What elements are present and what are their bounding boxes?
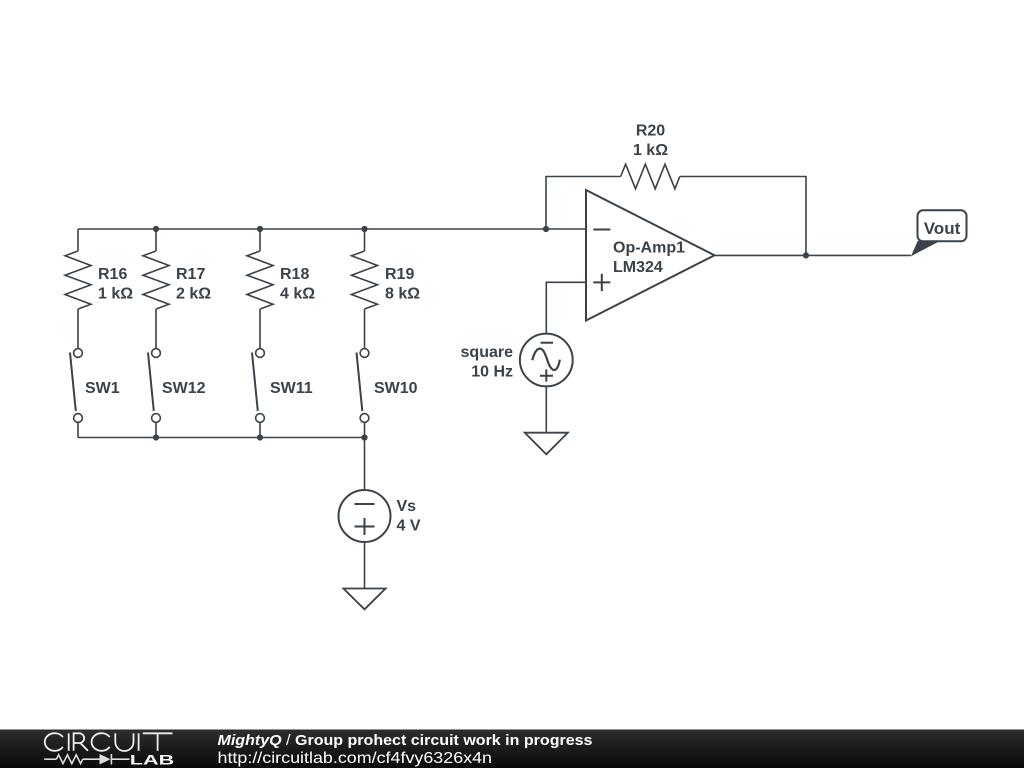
svg-text:http://circuitlab.com/cf4fvy63: http://circuitlab.com/cf4fvy6326x4n	[218, 750, 493, 767]
svg-text:1 kΩ: 1 kΩ	[98, 286, 133, 303]
svg-text:SW12: SW12	[162, 380, 206, 397]
svg-text:LAB: LAB	[130, 751, 175, 767]
svg-text:10 Hz: 10 Hz	[471, 364, 513, 381]
svg-text:1 kΩ: 1 kΩ	[633, 142, 668, 159]
svg-text:square: square	[461, 344, 514, 361]
svg-text:SW10: SW10	[374, 380, 418, 397]
svg-text:R16: R16	[98, 266, 127, 283]
svg-text:SW11: SW11	[270, 380, 313, 397]
svg-text:8 kΩ: 8 kΩ	[385, 286, 420, 303]
svg-text:R20: R20	[636, 123, 665, 140]
svg-text:R18: R18	[280, 266, 309, 283]
svg-text:R19: R19	[385, 266, 414, 283]
svg-text:4 V: 4 V	[397, 518, 421, 535]
svg-text:R17: R17	[176, 266, 205, 283]
svg-text:SW1: SW1	[85, 380, 120, 397]
svg-text:2 kΩ: 2 kΩ	[176, 286, 211, 303]
svg-text:LM324: LM324	[613, 259, 663, 276]
svg-text:Op-Amp1: Op-Amp1	[613, 240, 685, 257]
svg-text:Vs: Vs	[397, 498, 417, 515]
svg-text:MightyQ / Group prohect circui: MightyQ / Group prohect circuit work in …	[218, 732, 593, 749]
svg-text:4 kΩ: 4 kΩ	[280, 286, 315, 303]
svg-text:Vout: Vout	[924, 219, 961, 238]
